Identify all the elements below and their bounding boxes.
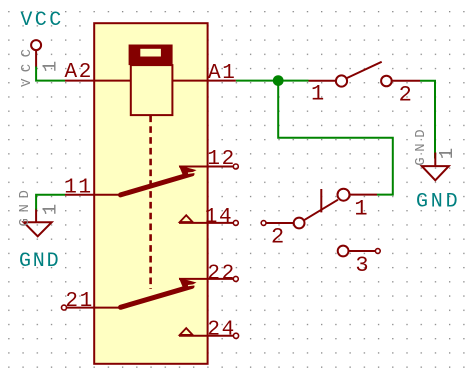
svg-text:21: 21	[65, 290, 93, 313]
svg-text:3: 3	[355, 253, 368, 278]
svg-text:GND: GND	[413, 124, 429, 166]
svg-text:GND: GND	[416, 191, 460, 214]
svg-text:14: 14	[205, 206, 233, 229]
svg-text:2: 2	[399, 82, 412, 107]
pin 21	[62, 290, 122, 313]
coil graphic line A2-A1	[65, 80, 236, 82]
pin A1	[208, 62, 236, 85]
switch SW2	[261, 189, 380, 279]
relay K1 body	[94, 23, 207, 364]
svg-text:1: 1	[354, 196, 367, 221]
svg-text:1: 1	[436, 148, 458, 159]
svg-text:1: 1	[39, 204, 61, 215]
svg-text:24: 24	[207, 318, 235, 341]
pin 14	[179, 206, 238, 229]
wire junction to SW2 pin1	[278, 81, 393, 195]
switch SW1	[309, 62, 421, 108]
svg-text:1: 1	[311, 81, 324, 106]
pin 22	[179, 263, 238, 286]
pin 12	[179, 148, 238, 171]
svg-text:VCC: VCC	[20, 9, 63, 32]
pin A2	[65, 61, 93, 84]
svg-text:12: 12	[207, 148, 235, 171]
svg-text:GND: GND	[17, 184, 33, 226]
dashed actuation line	[149, 116, 152, 290]
svg-text:22: 22	[207, 263, 235, 286]
wire A1 to SW1 pin1	[236, 80, 309, 82]
ground GND left	[17, 184, 61, 272]
wire VCC to A2	[36, 67, 65, 81]
svg-text:1: 1	[40, 61, 62, 72]
wire SW1 pin2 to GND right	[420, 81, 435, 159]
svg-text:2: 2	[271, 225, 284, 250]
ground GND right	[413, 124, 461, 214]
svg-text:VCC: VCC	[19, 43, 35, 87]
relay coil	[129, 45, 173, 116]
svg-text:GND: GND	[19, 250, 60, 273]
junction node	[273, 75, 284, 86]
svg-text:A1: A1	[208, 62, 236, 85]
power symbol VCC	[19, 9, 64, 87]
wire GND left to pin 11	[36, 195, 65, 210]
contact arm 1	[121, 165, 201, 195]
contact arm 2	[121, 278, 201, 308]
pin 24	[179, 318, 239, 341]
pin 11	[64, 177, 121, 200]
svg-text:A2: A2	[65, 61, 93, 84]
svg-text:11: 11	[64, 177, 92, 200]
